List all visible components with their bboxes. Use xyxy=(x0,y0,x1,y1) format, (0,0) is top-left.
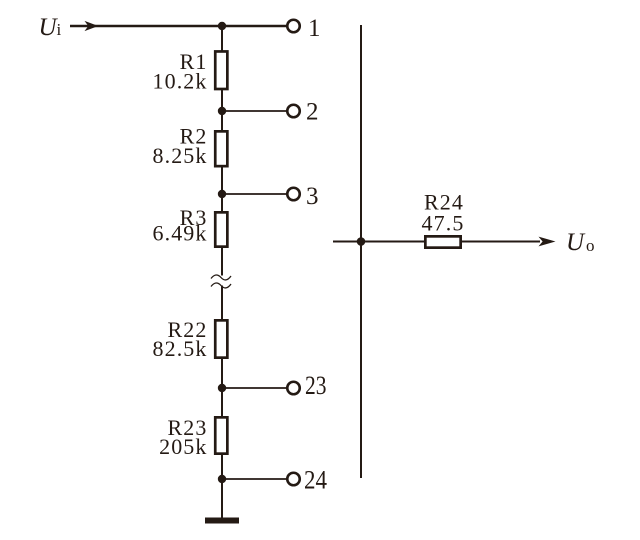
svg-text:2: 2 xyxy=(306,99,319,126)
svg-text:23: 23 xyxy=(305,371,327,400)
svg-text:24: 24 xyxy=(304,466,327,495)
node junction 24 xyxy=(218,475,226,483)
svg-text:82.5k: 82.5k xyxy=(153,336,208,361)
output arrowhead xyxy=(539,237,556,247)
node Uo output label xyxy=(566,229,595,256)
wire output horizontal xyxy=(333,241,540,243)
svg-text:6.49k: 6.49k xyxy=(153,221,208,246)
svg-text:47.5: 47.5 xyxy=(422,210,465,235)
input arrowhead xyxy=(85,21,99,31)
svg-text:U: U xyxy=(39,14,59,41)
svg-text:i: i xyxy=(57,20,62,39)
label R3 value xyxy=(153,205,208,246)
node junction 1 xyxy=(218,22,226,30)
terminal circle 23 xyxy=(287,382,300,395)
terminal circle 24 xyxy=(287,473,300,486)
break squiggle xyxy=(211,275,231,288)
svg-text:o: o xyxy=(586,236,595,255)
svg-text:1: 1 xyxy=(308,15,321,42)
ground xyxy=(205,518,239,524)
wire tap 24 xyxy=(222,478,287,480)
svg-text:8.25k: 8.25k xyxy=(153,143,208,168)
wire chain lower xyxy=(221,286,223,519)
wire tap 2 xyxy=(222,110,287,112)
label R1 value xyxy=(153,49,208,94)
resistor R2 xyxy=(215,131,227,166)
svg-text:3: 3 xyxy=(306,183,319,210)
svg-text:U: U xyxy=(566,229,586,256)
wire chain upper xyxy=(221,26,223,276)
wire tap 23 xyxy=(222,387,287,389)
label R2 value xyxy=(153,124,208,169)
wire selector bus vertical xyxy=(360,25,362,478)
label R24 value xyxy=(422,189,465,235)
node junction 2 xyxy=(218,107,226,115)
node Ui input label xyxy=(39,14,62,41)
label R22 value xyxy=(153,317,208,361)
node junction 23 xyxy=(218,384,226,392)
terminal circle 1 xyxy=(287,20,300,33)
resistor R22 xyxy=(215,320,227,357)
wire tap 3 xyxy=(222,193,287,195)
resistor R23 xyxy=(215,417,227,453)
svg-text:10.2k: 10.2k xyxy=(153,69,208,94)
resistor R3 xyxy=(215,212,227,246)
terminal circle 3 xyxy=(287,188,300,201)
wire input top horizontal xyxy=(70,25,287,28)
svg-text:205k: 205k xyxy=(159,434,207,459)
node junction 3 xyxy=(218,190,226,198)
resistor R1 xyxy=(215,51,227,89)
resistor R24 xyxy=(425,236,460,247)
node junction bus output xyxy=(357,237,366,246)
terminal circle 2 xyxy=(287,105,300,118)
label R23 value xyxy=(159,415,207,459)
